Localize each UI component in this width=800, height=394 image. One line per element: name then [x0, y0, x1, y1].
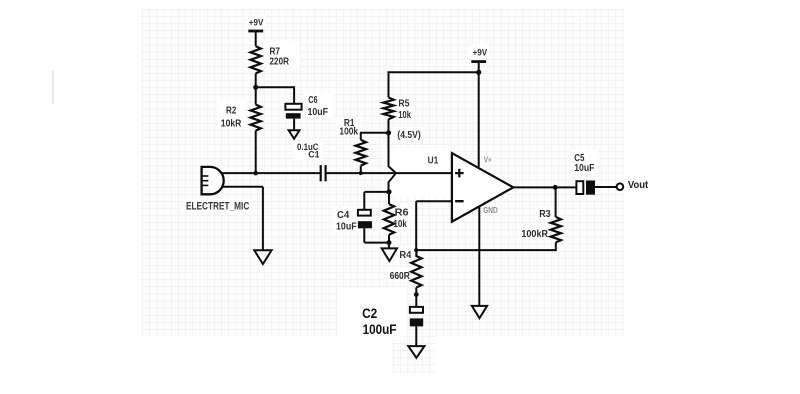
wire C1 to op-amp + input: [326, 172, 452, 174]
svg-text:C4: C4: [337, 210, 350, 221]
svg-text:10uF: 10uF: [308, 107, 329, 118]
svg-text:R3: R3: [539, 209, 551, 220]
resistor R5: [383, 98, 393, 120]
node D junction (R6/C4 bottom): [387, 240, 392, 245]
svg-text:10k: 10k: [398, 110, 411, 121]
capacitor C2 positive plate: [410, 307, 423, 313]
svg-text:ELECTRET_MIC: ELECTRET_MIC: [186, 201, 249, 213]
svg-text:(4.5V): (4.5V): [397, 130, 420, 141]
svg-text:C1: C1: [308, 149, 319, 159]
wire R1 top to node 4.5V: [361, 132, 389, 134]
capacitor C2 negative plate: [410, 318, 423, 326]
ground (C6): [289, 130, 300, 139]
node 4.5V junction: [386, 130, 391, 135]
wire node A to C6 branch: [256, 86, 294, 88]
wire - input to R4 branch: [416, 200, 452, 202]
wire R3 bottom to feedback: [555, 242, 557, 251]
capacitor C5 positive plate: [576, 181, 583, 194]
svg-text:R6: R6: [395, 208, 409, 219]
node E junction (+9V rail): [476, 70, 481, 75]
capacitor C1 plates: [320, 165, 322, 181]
node G junction (R4/C2): [414, 292, 419, 297]
wire R6 bottom to node D: [388, 235, 390, 243]
capacitor C4 negative plate: [358, 221, 372, 228]
wire R5 bottom to 4.5V node: [388, 119, 390, 133]
wire mic output to node B and C1: [221, 172, 320, 174]
svg-text:C2: C2: [362, 305, 377, 321]
svg-text:R5: R5: [398, 99, 409, 110]
op-amp U1 + input mark: [455, 172, 464, 174]
wire feedback node F to R3: [416, 249, 556, 251]
node R1-bottom junction: [359, 171, 363, 175]
svg-text:V+: V+: [484, 155, 492, 164]
capacitor C4 positive plate: [358, 210, 371, 216]
resistor R7: [251, 46, 261, 73]
wire R2 bottom to node B: [255, 131, 257, 174]
svg-text:R4: R4: [399, 250, 411, 261]
wire C2 to ground: [415, 326, 417, 346]
svg-text:100kR: 100kR: [521, 229, 548, 240]
node C (R6/C4 top) junction: [386, 189, 391, 194]
resistor R6: [384, 204, 394, 235]
svg-text:10uF: 10uF: [574, 163, 594, 174]
wire GND pin: [478, 207, 480, 307]
resistor R4: [411, 250, 421, 287]
svg-text:R2: R2: [226, 106, 237, 117]
svg-text:220R: 220R: [270, 56, 290, 67]
power +9V supply bar (left): [248, 30, 263, 33]
resistor R3: [551, 217, 561, 242]
svg-text:Vout: Vout: [628, 179, 649, 191]
svg-text:GND: GND: [483, 206, 498, 215]
ground (C2): [408, 346, 424, 358]
wire mic ground lead: [222, 186, 263, 188]
wire C6 to ground: [293, 119, 295, 131]
node B junction (R2/mic/C1): [253, 171, 258, 176]
resistor R2: [251, 105, 261, 131]
svg-text:100uF: 100uF: [363, 321, 397, 337]
wire op-amp output: [513, 186, 577, 188]
svg-text:10kR: 10kR: [221, 118, 242, 129]
power +9V supply bar (right): [471, 60, 486, 63]
electret microphone MIC1 body: [202, 167, 224, 194]
ground (op-amp GND pin): [472, 306, 487, 318]
svg-text:10uF: 10uF: [336, 222, 357, 233]
op-amp U1 body: [452, 153, 513, 222]
wire R4 bottom to node G: [415, 287, 417, 307]
wire C5 to Vout terminal: [595, 186, 617, 188]
wire node C to C4: [364, 191, 389, 193]
capacitor C5 negative plate: [586, 181, 595, 195]
capacitor C6 negative plate: [286, 113, 301, 118]
wire +9V bar to node E: [478, 62, 480, 73]
ground (R6/C4): [382, 248, 397, 261]
terminal Vout: [617, 183, 624, 190]
capacitor C6 positive plate: [285, 104, 301, 110]
node H junction (output): [553, 185, 558, 190]
wire node E to V+ pin: [478, 72, 480, 168]
wire node D to ground: [388, 243, 390, 249]
wire output node to R3 top: [555, 187, 557, 217]
svg-text:+9V: +9V: [249, 18, 264, 29]
svg-text:100k: 100k: [339, 127, 358, 138]
wire node A to R2 top: [255, 87, 257, 104]
svg-text:C6: C6: [308, 95, 318, 106]
wire C4 to node D: [363, 228, 365, 242]
svg-text:+9V: +9V: [473, 48, 488, 59]
node F junction (feedback/R4): [414, 248, 418, 252]
svg-text:10k: 10k: [393, 219, 407, 230]
ground (microphone): [254, 250, 271, 264]
resistor R1: [360, 132, 362, 140]
wire R7 bottom to node A: [255, 73, 257, 87]
wire +9V rail to R5: [388, 73, 390, 97]
svg-text:660R: 660R: [390, 271, 411, 282]
wire +9V bar to R7 top: [255, 31, 257, 46]
node A junction (R7/R2/C6): [253, 85, 258, 90]
op-amp U1 - input mark: [455, 200, 464, 202]
wire node C to R6: [388, 192, 390, 204]
svg-text:U1: U1: [428, 155, 439, 166]
wire 4.5V node crossover jog: [389, 133, 396, 192]
